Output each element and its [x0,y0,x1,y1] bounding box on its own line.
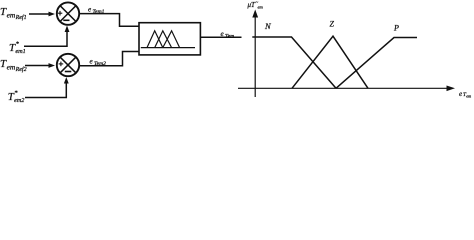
svg-text:Ref1: Ref1 [15,14,27,21]
wire Tem_Ref1 to summing junction S1 [29,12,55,17]
membership triangle 1 inside block [147,31,163,48]
svg-text:em2: em2 [14,97,24,104]
node Tem_Ref2 label [0,58,27,73]
svg-text:Z: Z [330,20,335,29]
x-axis label e T_em [459,90,471,99]
svg-text:em1: em1 [15,48,25,55]
membership triangle 2 inside block [155,31,172,48]
node e_Tem2 label [90,57,107,67]
svg-text:Tem: Tem [225,34,234,40]
minus sign S2 [65,71,72,73]
svg-text:em: em [7,63,16,72]
node T*_em2 label [8,90,25,105]
summing junction S2 [57,54,79,76]
svg-text:em: em [7,11,16,20]
y-axis label mu T~_em [248,1,264,10]
svg-text:em: em [258,5,264,10]
membership function P [336,38,417,89]
wire T*_em2 feedback into S2 bottom [25,77,69,98]
fuzzy logic block U1 [139,23,200,55]
wire S1 output to fuzzy block (elbow) [79,14,139,27]
x-axis e_Tem [238,86,455,92]
node e_Tem1 label [88,5,105,15]
minus sign S1 [63,19,69,21]
summing junction S1 [57,2,79,24]
wire Tem_Ref2 to summing junction S2 [25,63,55,68]
node e_Tem label [221,30,235,40]
node T*_em1 label [9,41,26,56]
membership baseline inside block [141,47,195,49]
svg-text:e: e [459,90,462,98]
membership function Z [292,36,368,88]
membership function N [252,37,336,88]
wire fuzzy block output e_Tem [200,36,241,38]
svg-text:Ref2: Ref2 [15,66,27,73]
wire T*_em1 feedback into S1 bottom [24,26,69,47]
node Tem_Ref1 label [0,6,27,21]
wire S2 output to fuzzy block (elbow) [79,52,139,66]
svg-text:P: P [393,24,399,33]
y-axis mu(T_em) [252,10,258,98]
svg-text:Tem1: Tem1 [93,9,105,15]
membership triangle 3 inside block [163,31,180,48]
plus sign S2 [59,62,64,67]
plus sign S1 [58,11,63,16]
svg-text:Tem2: Tem2 [94,61,106,67]
svg-text:em: em [466,94,471,99]
